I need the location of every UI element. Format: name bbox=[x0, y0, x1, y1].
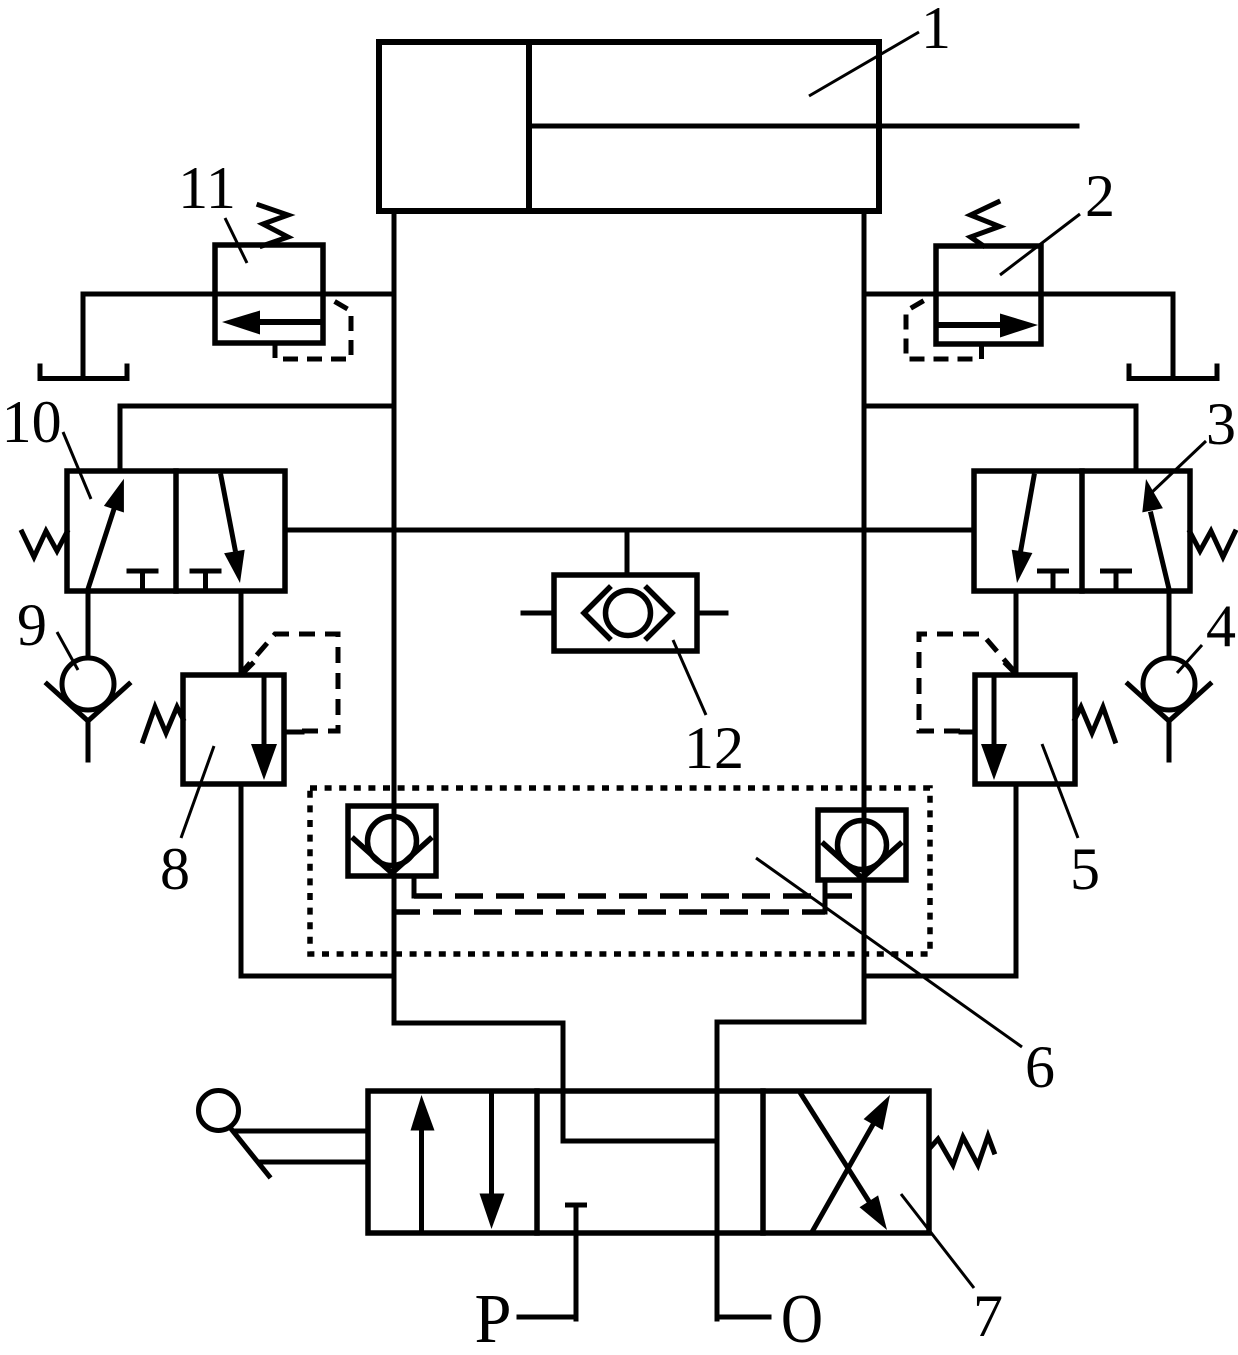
svg-text:10: 10 bbox=[2, 389, 62, 455]
svg-text:5: 5 bbox=[1070, 836, 1100, 902]
svg-text:6: 6 bbox=[1025, 1034, 1055, 1100]
svg-text:O: O bbox=[781, 1281, 823, 1355]
svg-text:P: P bbox=[475, 1281, 512, 1355]
svg-text:1: 1 bbox=[921, 0, 951, 61]
svg-text:8: 8 bbox=[160, 836, 190, 902]
svg-text:3: 3 bbox=[1206, 391, 1236, 457]
svg-text:12: 12 bbox=[684, 715, 744, 781]
svg-text:9: 9 bbox=[17, 592, 47, 658]
svg-text:11: 11 bbox=[178, 155, 236, 221]
svg-text:4: 4 bbox=[1206, 593, 1236, 659]
svg-text:2: 2 bbox=[1085, 163, 1115, 229]
svg-text:7: 7 bbox=[973, 1283, 1003, 1349]
